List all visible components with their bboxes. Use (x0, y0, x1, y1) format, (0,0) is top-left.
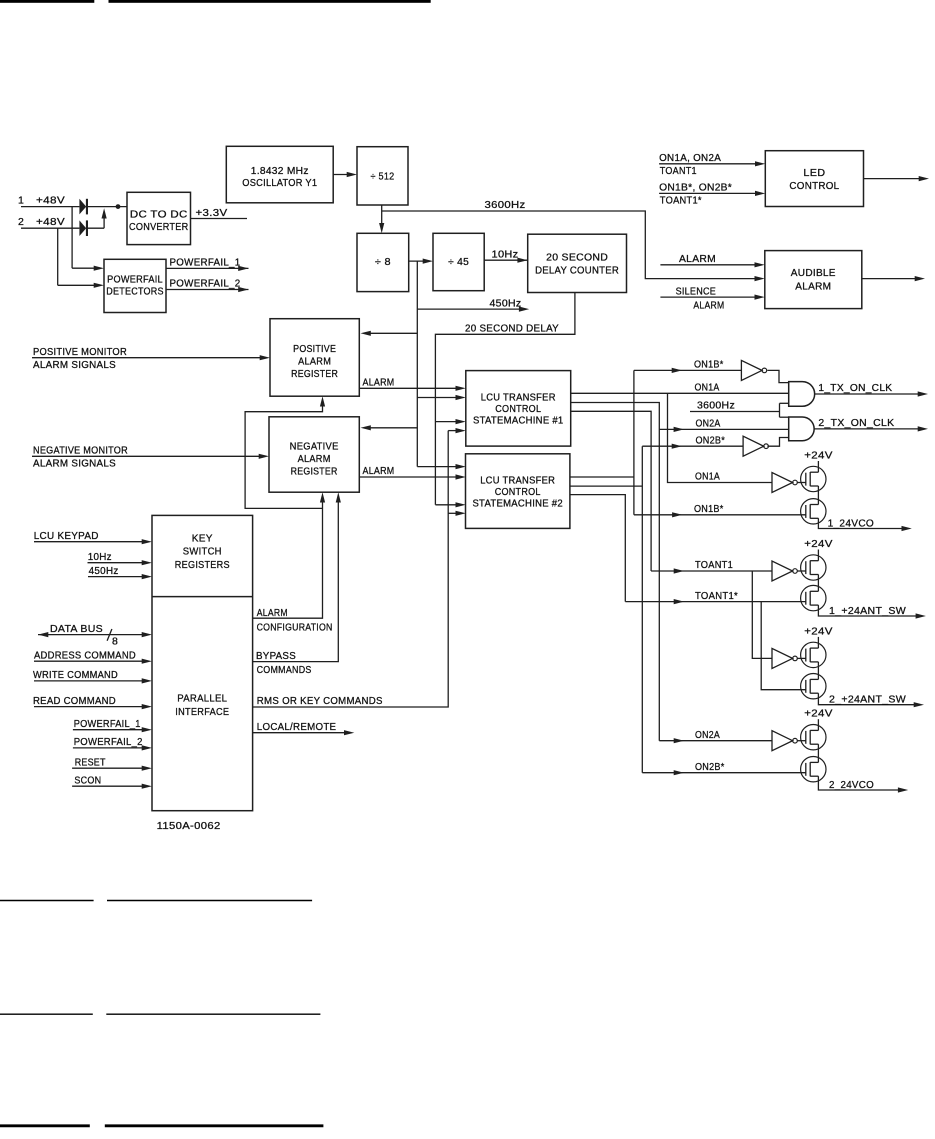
svg-text:÷ 45: ÷ 45 (448, 256, 469, 268)
wire audible alarm output (862, 276, 925, 281)
svg-text:POSITIVE: POSITIVE (293, 343, 336, 355)
svg-text:TOANT1*: TOANT1* (695, 590, 738, 602)
svg-text:NEGATIVE: NEGATIVE (290, 441, 339, 453)
svg-text:CONTROL: CONTROL (495, 403, 541, 415)
header rule left (0, 0, 94, 3)
svg-text:ON2B*: ON2B* (695, 761, 725, 773)
wire DATA BUS /8 (38, 623, 152, 648)
wire 450Hz to statemachine 1 (417, 395, 466, 400)
wire POWERFAIL_1 output (166, 257, 249, 271)
net ON2A from statemachine 1 (571, 403, 660, 741)
block KEY SWITCH REGISTERS / PARALLEL INTERFACE (152, 515, 253, 810)
svg-text:ALARM: ALARM (298, 453, 331, 465)
block divide-by-512 (357, 147, 408, 205)
svg-text:20 SECOND DELAY: 20 SECOND DELAY (465, 322, 559, 334)
block DC TO DC CONVERTER (127, 192, 191, 244)
svg-text:OSCILLATOR Y1: OSCILLATOR Y1 (242, 177, 317, 189)
wire 450Hz input (88, 565, 152, 579)
svg-text:DETECTORS: DETECTORS (106, 285, 164, 297)
svg-text:1150A-0062: 1150A-0062 (157, 820, 221, 832)
svg-text:20 SECOND: 20 SECOND (546, 252, 608, 264)
wire 450Hz stub (417, 297, 524, 309)
transistor D2 Q-top (801, 555, 826, 580)
wire D3 interconnect (817, 662, 819, 680)
svg-text:ALARM SIGNALS: ALARM SIGNALS (33, 359, 116, 371)
wire +48V-2 to powerfail detectors (58, 228, 104, 288)
svg-text:READ COMMAND: READ COMMAND (33, 695, 116, 707)
power +24V rail D3 (804, 625, 833, 648)
transistor D2 Q-bottom (801, 585, 826, 610)
wire 2_24VCO output (818, 776, 908, 792)
block LCU TRANSFER CONTROL STATEMACHINE #2 (466, 454, 570, 529)
wire inverter D3 to gate (797, 657, 806, 659)
svg-text:LED: LED (803, 167, 825, 179)
svg-text:REGISTERS: REGISTERS (175, 559, 230, 571)
wire ON2B* to inverter U2 (642, 434, 743, 448)
wire ON2B* to driver (642, 761, 806, 775)
svg-text:LCU TRANSFER: LCU TRANSFER (481, 392, 556, 404)
wire D2 interconnect (817, 575, 819, 592)
wire WRITE COMMAND input (33, 669, 152, 683)
svg-text:ON1A, ON2A: ON1A, ON2A (659, 152, 721, 164)
svg-text:3600Hz: 3600Hz (697, 400, 735, 412)
svg-text:TOANT1: TOANT1 (660, 165, 697, 177)
wire D4 interconnect (817, 744, 819, 762)
svg-text:2_24VCO: 2_24VCO (829, 779, 874, 791)
node 1 +48V label (18, 195, 65, 207)
power +24V rail D1 (804, 450, 833, 473)
header rule right (109, 0, 431, 3)
wire 20 SECOND DELAY (435, 293, 575, 505)
transistor D3 Q-bottom (801, 674, 826, 699)
wire TOANT1* branch to 2_+24ANT_SW driver (761, 602, 806, 690)
wire POWERFAIL_2 input (73, 736, 152, 750)
wire BYPASS COMMANDS to negative register (253, 492, 341, 676)
wire ON1B* to inverter U1 (634, 359, 742, 373)
wire diode CR2 junction up (88, 208, 107, 228)
net ON1A branch to driver (668, 393, 773, 482)
svg-text:POSITIVE MONITOR: POSITIVE MONITOR (33, 346, 127, 358)
svg-text:REGISTER: REGISTER (291, 368, 338, 380)
net 3600Hz at gates (690, 400, 789, 418)
transistor D1 Q-top (801, 466, 826, 491)
svg-text:DATA BUS: DATA BUS (50, 623, 103, 635)
wire 450Hz to negative alarm register (361, 425, 418, 430)
inverter D3 top (772, 648, 797, 668)
svg-text:+24V: +24V (804, 708, 833, 720)
svg-text:ALARM: ALARM (363, 465, 395, 477)
wire 1_+24ANT_SW output (818, 605, 926, 619)
svg-text:1_+24ANT_SW: 1_+24ANT_SW (829, 605, 906, 617)
wire 450Hz to statemachine 2 (417, 464, 466, 469)
svg-text:CONTROL: CONTROL (789, 180, 839, 192)
arrow 450Hz stub (519, 307, 529, 312)
svg-text:ON2A: ON2A (695, 729, 720, 741)
svg-text:ALARM: ALARM (795, 281, 831, 293)
svg-text:WRITE COMMAND: WRITE COMMAND (33, 669, 118, 681)
svg-text:ALARM: ALARM (693, 299, 724, 311)
footer rule pair 1 (0, 900, 312, 902)
transistor D4 Q-top (801, 725, 826, 750)
block LCU TRANSFER CONTROL STATEMACHINE #1 (466, 371, 571, 447)
svg-text:ALARM: ALARM (298, 356, 331, 368)
svg-text:ON1B*: ON1B* (694, 359, 724, 371)
svg-text:2_TX_ON_CLK: 2_TX_ON_CLK (818, 417, 894, 429)
svg-text:450Hz: 450Hz (490, 297, 522, 309)
diode CR1 (79, 199, 88, 215)
svg-text:1: 1 (18, 195, 24, 207)
net 450Hz clock vertical (416, 261, 418, 467)
svg-text:ALARM: ALARM (257, 607, 288, 619)
wire TOANT1* to driver (625, 590, 806, 604)
svg-text:+3.3V: +3.3V (196, 207, 228, 219)
svg-text:+24V: +24V (804, 450, 833, 462)
svg-text:3600Hz: 3600Hz (485, 199, 526, 211)
svg-text:10Hz: 10Hz (88, 551, 112, 563)
wire diode CR1 to converter (88, 204, 127, 209)
svg-text:8: 8 (112, 636, 118, 648)
wire LED control output (864, 176, 930, 181)
wire +48V-1 to powerfail detectors (72, 207, 104, 271)
inverter D4 top (772, 731, 797, 751)
block NEGATIVE ALARM REGISTER (269, 417, 359, 492)
svg-text:1_TX_ON_CLK: 1_TX_ON_CLK (818, 382, 892, 394)
and-gate G1 (789, 382, 815, 407)
svg-text:ON1B*: ON1B* (694, 503, 724, 515)
and-gate G2 (789, 417, 814, 441)
wire ON2A to AND gate 2 (659, 418, 788, 432)
power +24V rail D4 (804, 708, 833, 731)
wire RMS OR KEY COMMANDS (253, 431, 449, 708)
svg-text:ON1A: ON1A (695, 471, 720, 483)
svg-text:+48V: +48V (36, 216, 65, 228)
svg-text:AUDIBLE: AUDIBLE (791, 267, 836, 279)
svg-text:RESET: RESET (75, 756, 106, 768)
inverter U1 on ON1B* (741, 360, 766, 380)
svg-text:KEY: KEY (192, 533, 213, 545)
wire inverter U2 to AND gate 2 (767, 438, 788, 447)
wire 3600Hz to audible alarm (382, 199, 765, 281)
svg-text:POWERFAIL_2: POWERFAIL_2 (74, 736, 143, 748)
wire POWERFAIL_2 output (166, 278, 249, 292)
wire RMS commands to statemachine 1 (448, 428, 466, 433)
svg-text:RMS OR KEY COMMANDS: RMS OR KEY COMMANDS (257, 695, 383, 707)
wire SILENCE ALARM to audible alarm (660, 285, 764, 311)
svg-text:ADDRESS COMMAND: ADDRESS COMMAND (34, 649, 136, 661)
wire 20 second delay to statemachine 1 (435, 419, 465, 424)
wire ON1B* to driver (634, 503, 806, 518)
block POSITIVE ALARM REGISTER (270, 319, 359, 397)
wire TOANT1 to driver (651, 559, 772, 573)
node 2 +48V label (18, 216, 65, 228)
wire 1_TX_ON_CLK output (815, 382, 928, 397)
svg-text:ALARM: ALARM (679, 253, 716, 265)
svg-text:STATEMACHINE #2: STATEMACHINE #2 (472, 498, 563, 510)
svg-text:LCU TRANSFER: LCU TRANSFER (480, 475, 555, 487)
wire inverter D2 to gate (797, 570, 806, 572)
svg-text:SWITCH: SWITCH (183, 546, 222, 558)
svg-text:NEGATIVE MONITOR: NEGATIVE MONITOR (33, 444, 128, 456)
wire SCON input (72, 774, 152, 788)
svg-text:10Hz: 10Hz (492, 248, 519, 260)
svg-text:REGISTER: REGISTER (291, 466, 338, 478)
svg-text:1.8432 MHz: 1.8432 MHz (251, 165, 309, 177)
svg-text:+24V: +24V (804, 625, 833, 637)
block divide-by-45 (433, 233, 484, 290)
wire TOANT1 branch to 2_+24ANT_SW driver (752, 571, 772, 658)
block AUDIBLE ALARM (765, 251, 862, 309)
svg-text:DC TO DC: DC TO DC (130, 209, 188, 221)
transistor D1 Q-bottom (801, 499, 826, 524)
svg-text:+48V: +48V (36, 195, 65, 207)
wire D1 interconnect (817, 486, 819, 505)
footer rule pair 2 (0, 1013, 320, 1015)
wire ALARM positive to statemachine 1 (359, 376, 466, 391)
wire +3.3V output (191, 207, 248, 219)
inverter D1 top (772, 473, 797, 493)
block oscillator Y1 (226, 146, 333, 203)
wire NEGATIVE MONITOR ALARM SIGNALS (32, 444, 269, 469)
wire LOCAL/REMOTE output (253, 721, 355, 735)
svg-text:ON1A: ON1A (695, 382, 720, 394)
inverter U2 on ON2B* (743, 436, 768, 456)
transistor D3 Q-top (801, 642, 826, 667)
svg-text:÷ 8: ÷ 8 (375, 256, 391, 268)
wire RESET input (72, 756, 152, 770)
wire divide-by-512 to divide-by-8 (379, 205, 384, 233)
wire 2_TX_ON_CLK output (814, 417, 928, 432)
wire ON2A to driver (659, 729, 772, 743)
wire inverter D1 to gate (797, 482, 806, 484)
net ON1A (571, 382, 789, 394)
wire ALARM negative to statemachine 2 (359, 465, 466, 480)
svg-text:2_+24ANT_SW: 2_+24ANT_SW (829, 694, 906, 706)
svg-text:CONVERTER: CONVERTER (129, 221, 188, 233)
svg-text:450Hz: 450Hz (89, 565, 119, 577)
svg-text:CONTROL: CONTROL (495, 486, 541, 498)
wire POWERFAIL_1 input (73, 718, 152, 732)
svg-text:POWERFAIL_2: POWERFAIL_2 (170, 278, 241, 290)
svg-text:+24V: +24V (804, 538, 833, 550)
wire 20 second delay to statemachine 2 (435, 502, 465, 507)
wire RMS commands to statemachine 2 (448, 511, 466, 516)
wire 1_24VCO output (818, 517, 911, 531)
svg-text:DELAY COUNTER: DELAY COUNTER (535, 265, 619, 277)
wire ALARM CONFIGURATION loop to positive register (245, 396, 325, 508)
wire +48V input 1 (21, 206, 79, 208)
wire 450Hz to positive alarm register (361, 331, 418, 336)
svg-text:÷ 512: ÷ 512 (371, 171, 395, 183)
wire inverter D4 to gate (797, 740, 806, 742)
svg-text:SCON: SCON (74, 774, 101, 786)
inverter D2 top (772, 561, 797, 581)
wire ON1B*, ON2B* TOANT1* to LED control (659, 182, 765, 207)
svg-text:BYPASS: BYPASS (256, 650, 296, 662)
svg-text:ALARM SIGNALS: ALARM SIGNALS (33, 457, 116, 469)
wire ALARM CONFIGURATION to negative register (253, 492, 333, 633)
wire ON1A, ON2A TOANT1 to LED control (659, 152, 765, 177)
svg-text:POWERFAIL_1: POWERFAIL_1 (170, 257, 241, 269)
svg-text:LCU KEYPAD: LCU KEYPAD (34, 530, 99, 542)
svg-text:ON2A: ON2A (696, 418, 721, 430)
power +24V rail D2 (804, 538, 833, 561)
net TOANT1* from statemachine 2 (570, 495, 625, 602)
diode CR2 (79, 220, 88, 236)
block divide-by-8 (357, 233, 409, 291)
net ON1B* from statemachine 2 (570, 370, 634, 514)
wire ALARM to audible alarm (660, 253, 764, 267)
wire inverter U1 to AND gate 1 (767, 370, 788, 382)
block POWERFAIL DETECTORS (104, 259, 166, 312)
wire oscillator to divide-by-512 (333, 172, 357, 177)
svg-text:POWERFAIL_1: POWERFAIL_1 (74, 718, 141, 730)
svg-text:ALARM: ALARM (363, 376, 395, 388)
svg-text:TOANT1: TOANT1 (695, 559, 733, 571)
svg-text:PARALLEL: PARALLEL (177, 693, 227, 705)
svg-text:ON2B*: ON2B* (696, 434, 726, 446)
wire 10Hz input (88, 551, 153, 565)
wire ADDRESS COMMAND input (34, 649, 152, 663)
wire READ COMMAND input (33, 695, 152, 709)
svg-text:ON1B*, ON2B*: ON1B*, ON2B* (659, 182, 732, 194)
net ON2B* from statemachine 2 (570, 446, 642, 773)
svg-text:STATEMACHINE #1: STATEMACHINE #1 (473, 415, 564, 427)
footer rule pair 3 (0, 1124, 323, 1127)
svg-text:LOCAL/REMOTE: LOCAL/REMOTE (257, 721, 337, 733)
wire divide-by-8 to divide-by-45 (409, 259, 433, 264)
svg-text:POWERFAIL: POWERFAIL (107, 274, 163, 286)
block 20 second delay counter (528, 234, 627, 292)
wire LCU KEYPAD input (34, 530, 152, 544)
svg-text:1_24VCO: 1_24VCO (828, 517, 875, 529)
wire 2_+24ANT_SW output (818, 693, 924, 707)
transistor D4 Q-bottom (801, 757, 826, 782)
wire +48V input 2 (21, 227, 79, 229)
svg-text:INTERFACE: INTERFACE (175, 706, 229, 718)
wire POSITIVE MONITOR ALARM SIGNALS (32, 346, 270, 371)
wire 10Hz to delay counter (484, 248, 528, 262)
net TOANT1 from statemachine 1 (571, 411, 651, 571)
svg-text:COMMANDS: COMMANDS (257, 664, 312, 676)
svg-text:SILENCE: SILENCE (676, 285, 717, 297)
svg-text:TOANT1*: TOANT1* (660, 195, 702, 207)
svg-text:CONFIGURATION: CONFIGURATION (257, 622, 333, 634)
block LED CONTROL (765, 151, 863, 207)
svg-text:2: 2 (18, 216, 24, 228)
